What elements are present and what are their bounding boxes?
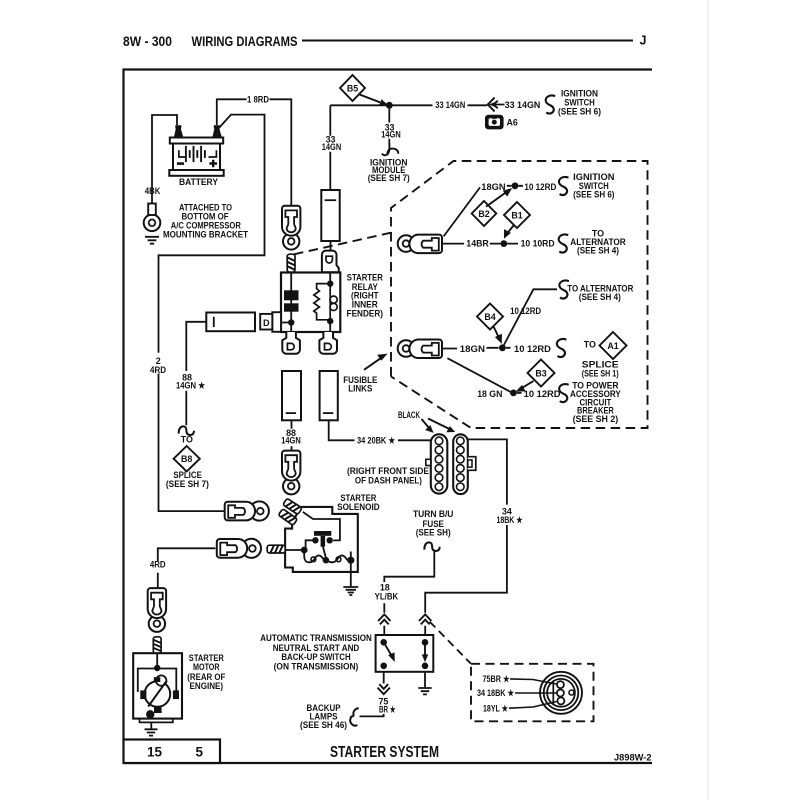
svg-text:8W - 300: 8W - 300 — [123, 34, 172, 49]
relay resistor zigzag — [314, 284, 330, 320]
fusible link (top) — [321, 190, 339, 241]
svg-text:18 GN: 18 GN — [477, 389, 502, 399]
switch blade arrow — [384, 642, 392, 656]
svg-text:(SEE SH): (SEE SH) — [416, 528, 451, 538]
ground symbol switch — [418, 688, 431, 694]
solenoid coil right leg — [350, 552, 352, 587]
wire 33 14GN down to fusible link — [329, 105, 331, 190]
junction dot node1 — [512, 182, 519, 189]
connector chevrons left — [378, 614, 390, 624]
wire 33 14GN horizontal — [330, 104, 504, 107]
starter motor group — [133, 653, 182, 736]
connector chevrons right — [419, 614, 431, 624]
relay bottom-left spade terminal — [282, 332, 300, 354]
motor circle — [145, 681, 171, 707]
dash panel connector capsule right — [453, 434, 476, 494]
sheet number box 15 | 5 — [124, 740, 221, 764]
svg-text:BR ★: BR ★ — [379, 705, 396, 715]
battery group — [169, 125, 223, 187]
inset dashed box — [471, 664, 594, 722]
svg-text:33 14GN: 33 14GN — [505, 100, 541, 110]
squiggle node1 — [559, 177, 569, 195]
svg-text:OF DASH PANEL): OF DASH PANEL) — [355, 475, 422, 485]
fusible link (88 14GN lower) — [282, 371, 301, 420]
arrow B5 to junction — [360, 95, 381, 103]
ring terminal 18GN (lower) — [398, 340, 442, 359]
svg-text:B5: B5 — [347, 83, 358, 93]
svg-text:A6: A6 — [507, 117, 518, 127]
svg-text:18GN: 18GN — [460, 344, 485, 354]
solenoid stud screw upper — [283, 498, 302, 514]
diagram frame border — [124, 70, 653, 764]
relay D flange left — [272, 312, 281, 332]
svg-text:18YL ★: 18YL ★ — [483, 704, 509, 714]
splice diamond B8 — [174, 446, 200, 471]
motor ground symbol — [145, 729, 158, 735]
svg-text:TO: TO — [181, 435, 193, 445]
solenoid T stem to coil — [323, 547, 326, 557]
faint scanned page edge — [707, 0, 709, 800]
svg-text:SOLENOID: SOLENOID — [337, 502, 380, 512]
inset leader lines — [509, 679, 557, 708]
svg-text:J: J — [640, 34, 647, 48]
junction dot node3 — [510, 390, 517, 397]
squiggle to alternator — [559, 235, 569, 253]
battery top cap — [170, 138, 223, 144]
battery positive post — [212, 128, 222, 138]
motor ground stem — [150, 722, 152, 729]
junction dot 14BR/10RD — [500, 240, 507, 247]
arrow B3 to node3 — [521, 381, 534, 389]
svg-text:75BR ★: 75BR ★ — [483, 674, 511, 684]
wire at node1 — [507, 185, 523, 187]
relay bottom-right spade terminal — [319, 332, 337, 354]
svg-text:10 12RD: 10 12RD — [514, 344, 552, 354]
wire diagonal to alternator — [502, 289, 557, 348]
screw into relay top — [287, 254, 295, 272]
motor inner bracket — [138, 669, 177, 693]
svg-text:(SEE SH 7): (SEE SH 7) — [166, 479, 209, 489]
svg-text:34 20BK ★: 34 20BK ★ — [357, 435, 396, 445]
svg-text:ENGINE): ENGINE) — [190, 681, 224, 691]
svg-text:BATTERY: BATTERY — [179, 177, 218, 187]
svg-text:FENDER): FENDER) — [347, 309, 384, 319]
svg-text:(SEE SH 1): (SEE SH 1) — [582, 368, 619, 378]
svg-text:10 12RD: 10 12RD — [510, 306, 542, 316]
arrow B1 to 14BR node — [507, 225, 514, 234]
dashed leader from relay to harness — [294, 233, 391, 255]
splice diamond A1 — [600, 332, 627, 359]
motor pads — [154, 677, 161, 682]
svg-text:(SEE SH 4): (SEE SH 4) — [577, 246, 619, 256]
svg-text:B8: B8 — [181, 454, 192, 464]
squiggle to alternator upper — [559, 281, 569, 299]
solenoid coil dots — [323, 557, 330, 564]
relay top-right spade terminal — [322, 251, 339, 273]
relay coil loops — [329, 284, 331, 322]
svg-text:14GN: 14GN — [322, 142, 342, 152]
svg-text:BACK-UP SWITCH: BACK-UP SWITCH — [281, 652, 350, 662]
battery negative post — [174, 128, 184, 138]
svg-text:4BK: 4BK — [145, 186, 161, 196]
wire to bullet connector — [291, 420, 293, 451]
svg-text:18GN: 18GN — [481, 182, 505, 192]
fusible link (to B8 splice) — [206, 313, 255, 332]
relay box — [281, 273, 340, 333]
hook to ignition module — [382, 143, 398, 155]
wire to backup lamps — [360, 714, 384, 716]
svg-text:(SEE SH 6): (SEE SH 6) — [558, 106, 601, 116]
chevrons down — [378, 684, 390, 694]
wire node3 right — [517, 392, 522, 394]
dashed harness polygon — [391, 161, 648, 428]
screw into starter motor — [153, 637, 161, 654]
dash panel connector capsule left — [426, 434, 448, 493]
solenoid junction dot — [301, 547, 308, 554]
wire battery negative to 4BK ground terminal — [152, 115, 177, 204]
svg-text:(SEE SH 7): (SEE SH 7) — [368, 173, 410, 183]
svg-text:A1: A1 — [607, 341, 618, 351]
hook above TO — [179, 426, 194, 435]
relay junction dot left — [288, 319, 294, 325]
solenoid body — [285, 507, 358, 572]
wire 34 20BK to dash connector — [329, 420, 431, 440]
svg-text:4RD: 4RD — [150, 559, 166, 569]
svg-text:18BK ★: 18BK ★ — [497, 515, 524, 525]
battery bottom cap — [169, 170, 223, 176]
motor brush top circle — [156, 675, 166, 685]
svg-text:(SEE SH 2): (SEE SH 2) — [573, 414, 619, 424]
svg-text:MOUNTING BRACKET: MOUNTING BRACKET — [163, 230, 249, 240]
svg-text:10 12RD: 10 12RD — [524, 389, 561, 399]
svg-text:15: 15 — [147, 745, 163, 760]
dashed leader to inset — [430, 622, 471, 664]
svg-text:(SEE SH 6): (SEE SH 6) — [573, 189, 614, 199]
svg-text:14GN ★: 14GN ★ — [176, 381, 206, 391]
svg-text:B2: B2 — [478, 209, 489, 219]
svg-text:TO: TO — [584, 340, 596, 350]
connector A6 black box — [485, 115, 504, 130]
wire diagonal 18GN up — [444, 187, 480, 236]
svg-text:14GN: 14GN — [381, 130, 401, 140]
svg-text:AUTOMATIC TRANSMISSION: AUTOMATIC TRANSMISSION — [260, 633, 372, 643]
svg-text:B1: B1 — [511, 210, 522, 220]
squiggle to ignition switch — [546, 96, 556, 114]
header rule — [302, 40, 633, 42]
ring terminal 14BR/18GN — [398, 235, 442, 254]
bullet connector 88 14GN — [282, 451, 300, 495]
wire below switch left (75 BR) — [383, 672, 385, 684]
motor feed wire — [156, 653, 158, 665]
wire 14BR — [442, 243, 518, 245]
solenoid inner wire from studs to contact — [303, 512, 340, 541]
squiggle node3 — [559, 384, 569, 402]
battery body — [173, 144, 220, 171]
ring terminal to solenoid battery stud — [225, 501, 269, 520]
wire 18GN node2 — [442, 347, 510, 350]
svg-text:(ON TRANSMISSION): (ON TRANSMISSION) — [274, 662, 359, 672]
svg-text:10 10RD: 10 10RD — [521, 238, 556, 248]
starter solenoid group — [267, 498, 358, 595]
svg-text:WIRING DIAGRAMS: WIRING DIAGRAMS — [192, 34, 298, 49]
switch right arrow — [424, 642, 426, 655]
svg-text:4RD: 4RD — [150, 365, 167, 375]
svg-text:YL/BK: YL/BK — [375, 592, 399, 602]
svg-text:33 14GN: 33 14GN — [435, 100, 465, 110]
relay contact black bars — [284, 290, 299, 300]
neutral start / back-up switch box — [376, 635, 434, 672]
round connector rear view — [540, 672, 582, 714]
solenoid ground — [343, 587, 358, 595]
wire 34 18BK from capsule to switch — [425, 439, 507, 635]
svg-text:BLACK: BLACK — [398, 410, 420, 420]
solenoid contact dots — [312, 537, 318, 543]
battery plus sign — [209, 160, 217, 168]
svg-text:10 12RD: 10 12RD — [524, 182, 557, 192]
junction node 33 14GN — [386, 102, 393, 109]
battery cell plates — [186, 146, 205, 162]
arrow B4 to node2 — [493, 326, 499, 338]
relay coil dots — [327, 280, 333, 286]
wire battery positive 1 8RD — [217, 99, 291, 206]
splice diamond B1 — [504, 202, 530, 228]
svg-text:J898W-2: J898W-2 — [614, 753, 652, 764]
wire battery positive cable to starter (2 4RD) — [159, 115, 265, 512]
motor box — [133, 653, 182, 718]
inline connector double chevron — [488, 98, 498, 112]
svg-text:LINKS: LINKS — [348, 383, 372, 393]
ring terminal to solenoid motor stud — [217, 539, 261, 558]
backup lamps hook — [350, 708, 359, 725]
svg-text:5: 5 — [196, 745, 204, 760]
bullet connector starter motor — [148, 588, 166, 632]
solenoid T contact — [314, 531, 331, 536]
svg-text:B4: B4 — [484, 312, 495, 322]
svg-text:1 8RD: 1 8RD — [247, 95, 270, 105]
starter relay group — [260, 251, 340, 354]
svg-text:B3: B3 — [535, 368, 546, 378]
solenoid stud screw lower — [278, 509, 297, 526]
switch contacts right — [422, 639, 429, 646]
solenoid coil — [304, 551, 347, 562]
wire link to relay terminal — [330, 241, 332, 251]
svg-text:14BR: 14BR — [466, 238, 489, 248]
svg-text:MOTOR: MOTOR — [193, 662, 220, 672]
splice diamond B5 — [340, 75, 365, 101]
squiggle node2 — [557, 339, 567, 357]
wire diagonal 18 GN node3 — [447, 358, 511, 392]
ground symbol below 4BK — [145, 237, 159, 244]
splice diamond B3 — [528, 360, 555, 387]
solenoid wire contact to coil junction — [285, 540, 315, 550]
splice diamond B2 — [472, 201, 497, 226]
motor junction dot — [154, 665, 160, 671]
splice diamond B4 — [477, 304, 503, 330]
battery minus sign — [177, 162, 184, 165]
svg-text:(SEE SH 4): (SEE SH 4) — [579, 292, 621, 302]
svg-text:STARTER SYSTEM: STARTER SYSTEM — [330, 744, 439, 761]
bullet connector below 1 8RD — [282, 206, 300, 250]
4BK ground ring terminal — [144, 204, 161, 232]
svg-text:14GN: 14GN — [281, 436, 301, 446]
hook below turn b/u fuse — [424, 542, 439, 551]
motor pedestal — [140, 719, 173, 723]
relay contact strip wire — [282, 273, 291, 333]
wire 18 YL/BK — [384, 551, 434, 635]
junction dot node2 — [499, 344, 506, 351]
solenoid stud screw left — [267, 545, 285, 553]
svg-text:(SEE SH 46): (SEE SH 46) — [300, 720, 347, 730]
svg-text:D: D — [263, 318, 270, 328]
wire below switch right to ground — [424, 672, 426, 688]
svg-text:34 18BK ★: 34 18BK ★ — [477, 688, 515, 698]
wire 88 14GN to B8 splice — [186, 322, 206, 426]
switch contacts left — [380, 639, 387, 646]
wire T4 to starter motor — [158, 548, 216, 588]
fusible link (34 20BK) — [320, 371, 338, 420]
motor slash — [148, 681, 167, 707]
wire down to ignition module — [388, 105, 390, 143]
arrow B2 to node1 — [486, 192, 507, 207]
relay coil branch — [329, 273, 331, 333]
svg-text:TURN B/U: TURN B/U — [413, 509, 454, 519]
